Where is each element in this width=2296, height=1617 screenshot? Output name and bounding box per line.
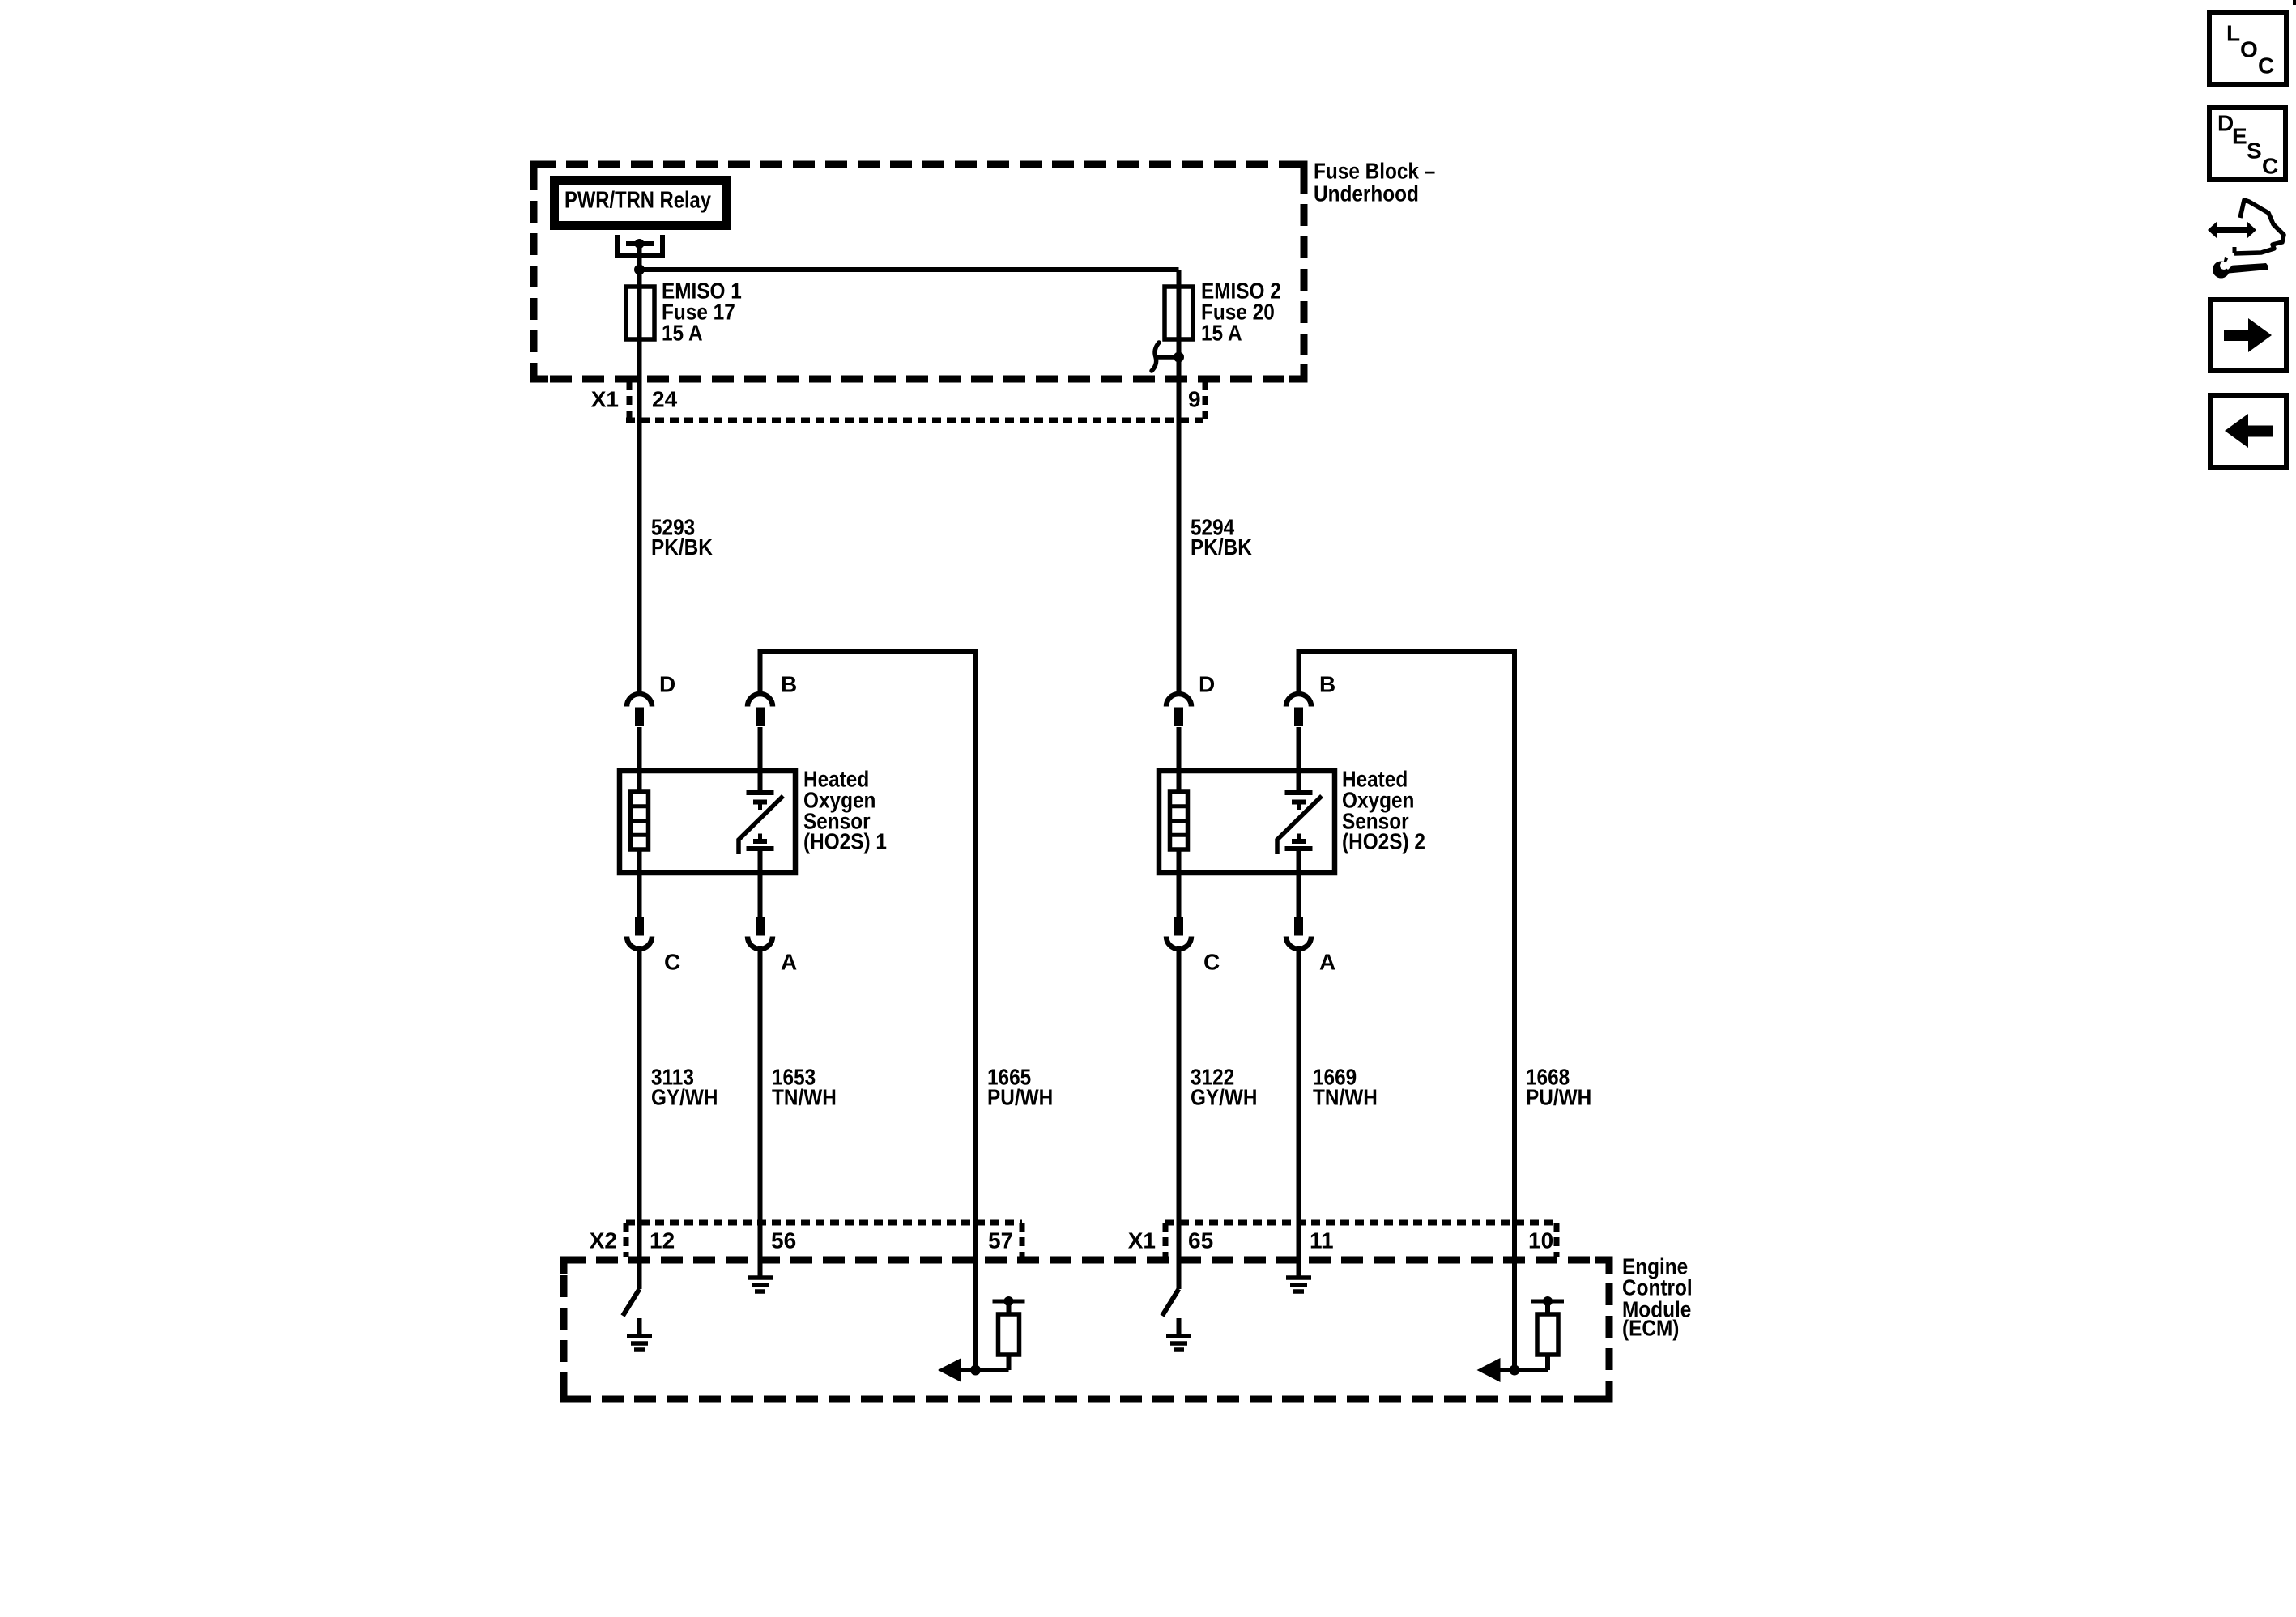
- svg-text:C: C: [2262, 153, 2278, 178]
- svg-text:D: D: [1199, 671, 1215, 696]
- svg-text:PU/WH: PU/WH: [1526, 1084, 1591, 1109]
- svg-text:C: C: [2258, 53, 2274, 78]
- svg-text:Underhood: Underhood: [1314, 181, 1419, 206]
- svg-text:PWR/TRN Relay: PWR/TRN Relay: [564, 188, 711, 214]
- svg-text:L: L: [2226, 20, 2240, 45]
- svg-text:65: 65: [1188, 1228, 1213, 1253]
- svg-text:(HO2S) 2: (HO2S) 2: [1342, 828, 1425, 853]
- svg-text:X1: X1: [1128, 1228, 1156, 1253]
- svg-text:D: D: [659, 671, 675, 696]
- svg-text:PU/WH: PU/WH: [987, 1084, 1053, 1109]
- svg-text:C: C: [664, 949, 680, 974]
- svg-text:15 A: 15 A: [662, 320, 703, 345]
- svg-text:(ECM): (ECM): [1622, 1315, 1679, 1340]
- svg-text:X2: X2: [590, 1228, 617, 1253]
- svg-text:A: A: [781, 949, 797, 974]
- svg-text:E: E: [2232, 123, 2247, 148]
- svg-text:PK/BK: PK/BK: [1191, 534, 1252, 560]
- svg-text:10: 10: [1528, 1228, 1553, 1253]
- svg-text:24: 24: [652, 386, 678, 411]
- svg-text:Fuse Block –: Fuse Block –: [1314, 158, 1435, 183]
- svg-text:12: 12: [650, 1228, 675, 1253]
- svg-text:TN/WH: TN/WH: [1313, 1084, 1378, 1109]
- svg-text:PK/BK: PK/BK: [651, 534, 713, 560]
- svg-text:X1: X1: [591, 386, 619, 411]
- svg-text:57: 57: [988, 1228, 1013, 1253]
- svg-text:(HO2S) 1: (HO2S) 1: [803, 828, 887, 853]
- svg-text:S: S: [2247, 138, 2262, 163]
- svg-text:15 A: 15 A: [1201, 320, 1242, 345]
- svg-text:11: 11: [1310, 1228, 1334, 1253]
- svg-text:9: 9: [1188, 386, 1201, 411]
- svg-text:B: B: [781, 671, 797, 696]
- svg-text:B: B: [1319, 671, 1335, 696]
- svg-text:A: A: [1319, 949, 1335, 974]
- svg-text:C: C: [1203, 949, 1220, 974]
- svg-text:56: 56: [771, 1228, 796, 1253]
- svg-text:GY/WH: GY/WH: [1191, 1084, 1258, 1109]
- svg-text:O: O: [2240, 36, 2258, 62]
- svg-text:TN/WH: TN/WH: [772, 1084, 837, 1109]
- svg-text:GY/WH: GY/WH: [651, 1084, 718, 1109]
